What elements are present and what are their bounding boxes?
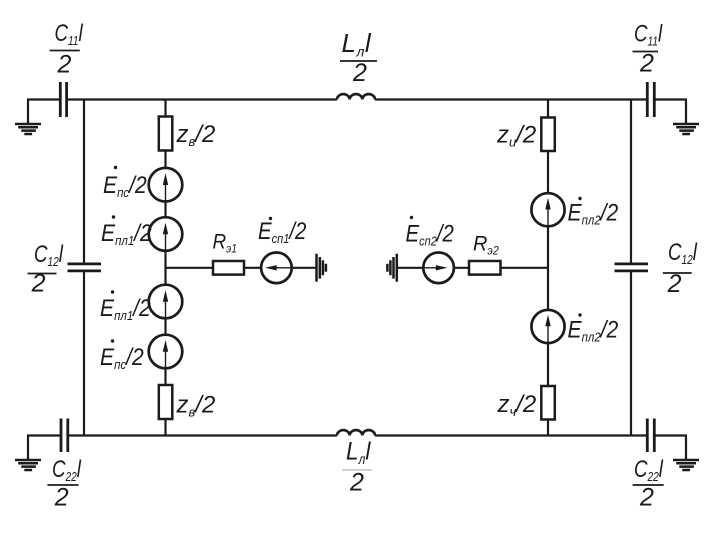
svg-text:C12l: C12l [34,241,64,270]
resistor zv/2 top-left [159,117,173,151]
label C12l/2 left [28,241,65,298]
source Epl1/2 circle2 [149,217,183,251]
resistor zi/2 top-right [541,118,555,152]
svg-text:2: 2 [54,484,69,512]
ground top-left [15,124,41,134]
ground top-right [673,124,699,134]
inductor Ll/2 top [337,94,375,99]
svg-text:C12l: C12l [668,239,698,268]
svg-text:Eпл1/2: Eпл1/2 [100,295,151,323]
wire bottom bus [28,436,686,460]
ground bottom-right [673,460,699,470]
wire right middle branch [398,267,549,269]
label C11l/2 top-right [633,20,664,77]
svg-text:2: 2 [349,469,364,497]
wire right vertical x=631 [630,100,632,436]
label Epl1/2 at circle2 [101,215,152,248]
label Epc/2 at circle4 [100,339,144,372]
label Epl2/2 right-upper [568,197,619,228]
svg-text:Rэ2: Rэ2 [473,232,500,258]
capacitor C12l/2 left [68,264,102,271]
svg-text:2: 2 [352,59,367,87]
source Epl2/2 circle right-lower [531,310,564,343]
svg-text:C22l: C22l [52,456,82,485]
svg-text:2: 2 [639,50,654,78]
svg-text:C11l: C11l [55,20,84,49]
svg-text:Eпс/2: Eпс/2 [103,172,147,200]
svg-text:zв/2: zв/2 [176,392,216,420]
wire left branch vertical x=165.5 [164,100,166,436]
svg-text:Rэ1: Rэ1 [213,231,237,256]
svg-text:Eсп1/2: Eсп1/2 [258,217,307,246]
svg-text:Eпс/2: Eпс/2 [100,344,144,372]
label Epc/2 at circle1 [103,166,147,200]
source Esp1/2 circle (arrow left) [261,252,292,283]
ground middle-left (sideways right) [317,254,326,282]
wire left vertical x=84 [83,100,85,436]
capacitor C22l/2 bottom-left [61,419,68,453]
capacitor C22l/2 bottom-right [647,419,654,453]
svg-text:zч/2: zч/2 [497,391,537,419]
source Epc/2 circle4 [149,335,183,369]
svg-text:zв/2: zв/2 [176,121,216,149]
label C11l/2 top-left [50,20,84,79]
svg-text:C22l: C22l [634,456,664,485]
svg-text:2: 2 [31,270,46,298]
capacitor C11l/2 top-left [60,82,66,117]
source Esp2/2 circle (arrow right) [423,252,454,283]
resistor zv/2 bottom-left [159,385,173,419]
resistor zch/2 bottom-right [541,386,555,420]
label Ll/2 bottom [342,437,372,496]
svg-text:zи/2: zи/2 [496,122,536,150]
resistor Re1 [213,261,244,275]
label Epl1/2 at circle3 [100,290,151,323]
svg-text:C11l: C11l [634,20,663,49]
svg-text:2: 2 [667,270,682,298]
resistor Re2 [469,261,501,275]
label Epl2/2 right-lower [568,313,619,344]
label C12l/2 right [663,239,698,298]
svg-text:Lлl: Lлl [342,28,372,60]
svg-text:Eсп2/2: Eсп2/2 [406,220,455,249]
label C22l/2 bottom-left [47,456,82,512]
ground middle-right (sideways left) [387,254,396,282]
wire right branch vertical x=548 [547,100,549,436]
source Epl2/2 circle right-upper [531,193,564,226]
ground bottom-left [15,460,41,470]
label C22l/2 bottom-right [633,456,664,512]
svg-text:Eпл1/2: Eпл1/2 [101,220,152,248]
svg-text:Eпл2/2: Eпл2/2 [568,199,619,227]
capacitor C12l/2 right [615,264,649,271]
svg-text:2: 2 [57,51,72,79]
label Esp2/2 [406,216,455,249]
svg-text:2: 2 [639,484,654,512]
source Epc/2 circle1 [149,168,183,202]
source Epl1/2 circle3 [149,285,183,319]
label Ll/2 top [340,28,377,87]
label Esp1/2 [258,217,307,246]
wire left middle branch [166,267,317,269]
inductor Ll/2 bottom [337,430,375,435]
wire top bus [28,100,686,124]
capacitor C11l/2 top-right [647,82,654,117]
svg-text:Eпл2/2: Eпл2/2 [568,316,619,344]
svg-text:Lлl: Lлl [346,437,371,467]
